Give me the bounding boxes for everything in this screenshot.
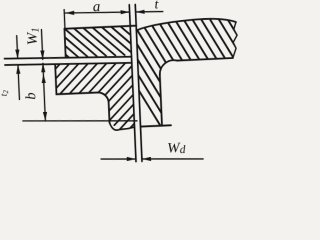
channel right wall	[135, 5, 142, 162]
jagged break right end	[231, 22, 238, 58]
dimension a	[64, 7, 130, 28]
svg-text:t: t	[154, 0, 160, 13]
svg-text:Wd: Wd	[167, 140, 186, 157]
leg right edge	[160, 75, 162, 126]
svg-text:W1: W1	[24, 27, 42, 45]
dimension b	[43, 63, 45, 121]
dimension W1 (down arrow from above)	[41, 30, 42, 60]
bottom edge of arm	[177, 58, 233, 61]
fillet into leg	[159, 60, 177, 74]
right piece outline	[136, 18, 241, 127]
svg-text:b: b	[23, 92, 39, 100]
hatching: left piece	[41, 58, 136, 135]
thin plate line A (bottom of top plate, extends left)	[4, 53, 131, 62]
left piece outline	[55, 62, 134, 133]
line B: top edge of left piece, extends left	[5, 60, 132, 69]
dimension t	[136, 11, 163, 13]
leg bottom edge with overshoot	[141, 125, 171, 126]
hatching: top mold plate (cavity block)	[35, 23, 161, 58]
top mold plate (cavity block) outline	[64, 26, 137, 57]
svg-text:t2: t2	[0, 89, 10, 96]
hatching: right piece	[93, 6, 308, 131]
small left pair (t2)	[17, 36, 20, 100]
channel left wall	[129, 5, 136, 162]
left piece broken bottom edge (freehand)	[110, 122, 135, 131]
svg-text:a: a	[92, 0, 100, 15]
dimension Wd	[101, 155, 203, 164]
top edge curve	[136, 18, 236, 31]
